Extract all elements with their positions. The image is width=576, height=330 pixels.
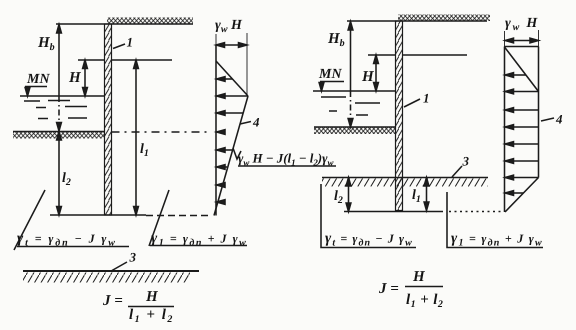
dimension l2 line	[348, 180, 350, 209]
ground surface top line	[56, 23, 193, 25]
river bed hatch band	[13, 132, 105, 139]
diagram left edge	[215, 45, 217, 216]
upper water level line (both sides of wall)	[368, 54, 467, 56]
river bed hatch band	[314, 127, 396, 134]
wall 1 (sheet pile)	[396, 21, 403, 211]
svg-text:γ1 = γдn + J γw: γ1 = γдn + J γw	[451, 231, 543, 249]
excavation ground line	[322, 177, 488, 179]
diagram bottom diagonal	[214, 96, 248, 216]
river bed line	[314, 126, 396, 128]
svg-text:Hb: Hb	[37, 35, 55, 53]
svg-text:Hb: Hb	[327, 31, 345, 49]
water dashes	[24, 101, 87, 119]
water level line MN	[20, 95, 105, 97]
svg-text:H: H	[412, 269, 426, 285]
dashed tailwater level line to diagram	[112, 131, 211, 133]
label 4 leader	[240, 122, 251, 125]
bottom line of wall toe	[344, 211, 443, 213]
MN leader	[320, 82, 344, 88]
dimension H line	[84, 62, 86, 94]
pressure arrows	[217, 77, 248, 205]
dimension l2 line	[58, 134, 60, 213]
diagram top diagonal	[505, 47, 539, 92]
svg-text:l2: l2	[334, 189, 343, 206]
svg-text:γt = γдn − J γw: γt = γдn − J γw	[325, 231, 413, 249]
svg-text:1: 1	[423, 91, 430, 106]
dimension Hb line	[58, 26, 60, 96]
river bed line	[13, 131, 105, 133]
svg-text:4: 4	[252, 115, 260, 130]
svg-text:3: 3	[129, 250, 137, 265]
diagram top diagonal	[216, 61, 248, 96]
dimension H line	[375, 57, 377, 89]
MN leader	[25, 87, 47, 93]
svg-text:H: H	[145, 289, 159, 305]
svg-text:4: 4	[555, 112, 563, 127]
svg-text:H: H	[361, 69, 375, 85]
water dashes	[321, 97, 380, 115]
label 1 leader	[113, 44, 125, 49]
formula bracket left	[321, 184, 416, 248]
wall 1 (sheet pile)	[105, 24, 112, 215]
formula slash right	[149, 190, 169, 246]
formula slash left	[14, 190, 45, 250]
formula bracket right	[447, 192, 543, 248]
bottom line of wall toe	[50, 214, 146, 216]
svg-text:l1 + l2: l1 + l2	[406, 292, 443, 310]
svg-text:l1: l1	[412, 188, 421, 205]
svg-text:l1 + l2: l1 + l2	[129, 307, 174, 325]
diagram left edge	[504, 47, 506, 213]
Hb top arrow	[57, 25, 62, 34]
label 1 leader	[404, 99, 420, 107]
label underline	[238, 165, 336, 167]
svg-text:γw H: γw H	[215, 18, 243, 35]
diagram right edge	[538, 47, 540, 178]
formula underline	[17, 246, 129, 248]
svg-text:3: 3	[462, 154, 470, 169]
svg-text:J =: J =	[378, 281, 399, 297]
svg-text:1: 1	[127, 35, 134, 50]
diagram top edge	[505, 46, 539, 48]
dotted bottom extension	[449, 211, 504, 213]
dimension Hb line	[350, 23, 352, 91]
upper water level line (right of wall)	[78, 59, 172, 61]
svg-text:γw H: γw H	[505, 16, 539, 33]
ground surface hatch band	[107, 18, 193, 25]
dimension l1 line	[135, 62, 137, 213]
svg-text:MN: MN	[318, 67, 342, 82]
water level line MN	[313, 90, 396, 92]
label gwH-J(l1-l2)gw leader tick	[233, 148, 241, 159]
excavation hatch band	[322, 179, 488, 187]
dimension l1 line	[426, 180, 428, 208]
pressure arrows	[505, 73, 539, 196]
diagram bottom diagonal	[505, 178, 539, 213]
Hb bottom arrow	[57, 123, 62, 132]
label 4 leader	[541, 118, 554, 121]
svg-text:γw H − J(l1 − l2)γw: γw H − J(l1 − l2)γw	[238, 151, 334, 168]
ground surface top line	[347, 20, 487, 22]
svg-text:MN: MN	[26, 72, 50, 87]
extension line	[538, 30, 540, 47]
svg-text:J =: J =	[102, 293, 123, 309]
dimension arrow gw H	[506, 40, 538, 42]
dimension arrow gw H	[217, 44, 246, 46]
svg-text:l2: l2	[62, 171, 71, 188]
lower stratum hatch	[23, 273, 190, 283]
ground surface hatch band	[398, 15, 490, 22]
svg-text:l1: l1	[140, 142, 149, 159]
dashed bottom extension	[146, 215, 212, 217]
svg-text:H: H	[68, 70, 82, 86]
label 3 leader	[112, 262, 127, 271]
extension line	[246, 33, 248, 96]
label 3 leader	[452, 166, 462, 177]
lower stratum line	[23, 270, 199, 272]
formula underline	[150, 245, 247, 247]
